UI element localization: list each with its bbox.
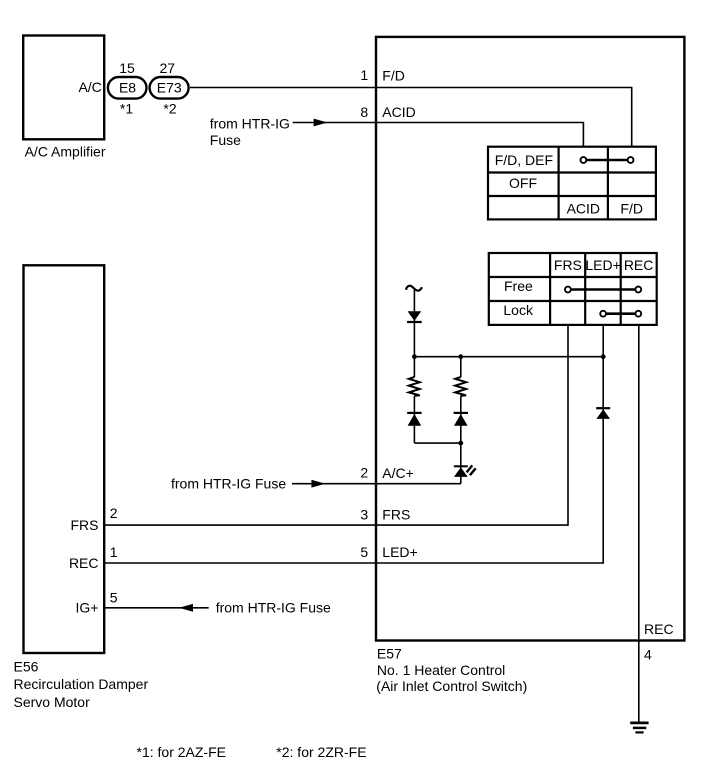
svg-text:*2: *2	[163, 101, 176, 117]
pin 2 FRS label E56	[71, 505, 118, 533]
svg-text:FRS: FRS	[71, 517, 99, 533]
svg-text:from HTR-IG: from HTR-IG	[210, 115, 290, 131]
svg-text:5: 5	[360, 544, 368, 560]
svg-text:F/D, DEF: F/D, DEF	[495, 152, 553, 168]
svg-text:from HTR-IG Fuse: from HTR-IG Fuse	[216, 600, 331, 616]
svg-text:E57: E57	[377, 646, 402, 662]
wire LED branch	[460, 443, 462, 484]
svg-text:A/C+: A/C+	[382, 465, 414, 481]
svg-text:OFF: OFF	[509, 175, 537, 191]
svg-text:E56: E56	[14, 659, 39, 675]
svg-text:2: 2	[110, 505, 118, 521]
switch contact Lock row	[600, 311, 641, 317]
svg-text:E8: E8	[119, 79, 136, 95]
svg-text:(Air Inlet Control Switch): (Air Inlet Control Switch)	[376, 678, 527, 694]
svg-text:Fuse: Fuse	[210, 132, 241, 148]
resistor R1	[409, 377, 420, 396]
svg-text:1: 1	[110, 544, 118, 560]
svg-text:Recirculation Damper: Recirculation Damper	[14, 676, 149, 692]
diode D1 down	[407, 311, 422, 323]
E57 heater control box	[376, 37, 684, 694]
svg-text:ACID: ACID	[567, 201, 600, 217]
svg-text:REC: REC	[624, 257, 654, 273]
svg-text:8: 8	[360, 104, 368, 120]
svg-text:*2: for 2ZR-FE: *2: for 2ZR-FE	[276, 744, 366, 760]
svg-text:2: 2	[360, 465, 368, 481]
wire LED+ pin5	[104, 325, 603, 563]
node D junction	[458, 441, 463, 446]
wire F/D pin1	[190, 88, 632, 147]
wire R2 to D3	[460, 396, 462, 443]
ground	[630, 723, 648, 733]
svg-text:F/D: F/D	[382, 67, 405, 83]
node A junction	[412, 354, 417, 359]
svg-text:REC: REC	[69, 555, 99, 571]
pin 3 FRS label	[360, 506, 410, 522]
svg-text:1: 1	[360, 67, 368, 83]
pin 1 REC label E56	[69, 544, 118, 571]
pin 2 A/C+ label	[360, 465, 413, 481]
wire left resistor branch	[413, 357, 415, 377]
svg-text:4: 4	[644, 646, 652, 662]
diode D2 up	[407, 412, 421, 426]
resistor R2	[455, 377, 466, 396]
connector E8	[108, 60, 147, 117]
svg-text:ACID: ACID	[382, 104, 415, 120]
wire bus y356	[414, 356, 603, 358]
svg-text:LED+: LED+	[382, 544, 417, 560]
switch table F/D-DEF/OFF	[488, 147, 656, 220]
pin 4 REC label	[644, 621, 674, 663]
svg-text:REC: REC	[644, 621, 674, 637]
pin 5 LED+ label	[360, 544, 417, 560]
svg-text:F/D: F/D	[620, 201, 643, 217]
wire branch bottom connect	[414, 442, 460, 444]
wire right resistor branch	[460, 357, 462, 377]
svg-text:from HTR-IG Fuse: from HTR-IG Fuse	[171, 476, 286, 492]
switch contact Free row	[565, 287, 641, 293]
wire R1 to D2	[413, 396, 415, 443]
wire A/C+ pin2 from HTR-IG fuse	[171, 476, 461, 492]
svg-text:Lock: Lock	[503, 302, 534, 318]
switch table FRS/LED+/REC Free/Lock	[489, 253, 657, 325]
svg-text:LED+: LED+	[585, 257, 620, 273]
E56 servo motor box	[14, 265, 149, 710]
LED D4	[454, 465, 476, 477]
connector E73	[150, 60, 189, 117]
A/C amplifier box E8/E73	[23, 36, 106, 160]
svg-text:IG+: IG+	[76, 600, 99, 616]
diode D3 up	[454, 412, 468, 426]
node C junction on LED+ wire	[601, 354, 606, 359]
svg-text:Free: Free	[504, 278, 533, 294]
wire IG+ from HTR-IG fuse	[104, 600, 331, 616]
diode D5 on LED+ line	[596, 407, 610, 419]
svg-text:*1: *1	[120, 101, 133, 117]
svg-text:3: 3	[360, 506, 368, 522]
wire ACID pin8 from HTR-IG fuse	[210, 115, 584, 148]
pin 1 F/D label	[360, 67, 404, 83]
svg-text:A/C Amplifier: A/C Amplifier	[25, 143, 106, 159]
svg-text:15: 15	[119, 60, 135, 76]
pin 5 IG+ label E56	[76, 589, 118, 615]
node B junction	[458, 354, 463, 359]
svg-text:27: 27	[160, 60, 176, 76]
svg-text:No. 1 Heater Control: No. 1 Heater Control	[377, 662, 505, 678]
svg-text:Servo Motor: Servo Motor	[14, 694, 91, 710]
svg-text:E73: E73	[157, 79, 182, 95]
wire REC pin4 to ground	[638, 325, 640, 722]
wire squiggle source	[406, 286, 422, 291]
svg-text:A/C: A/C	[78, 79, 101, 95]
svg-text:FRS: FRS	[382, 506, 410, 522]
svg-text:*1: for 2AZ-FE: *1: for 2AZ-FE	[137, 744, 226, 760]
wire main branch vertical	[413, 289, 415, 357]
svg-text:FRS: FRS	[554, 257, 582, 273]
wire FRS pin3	[104, 325, 568, 525]
svg-text:5: 5	[110, 589, 118, 605]
pin 8 ACID label	[360, 104, 415, 120]
switch contact F/D,DEF row	[581, 157, 634, 163]
